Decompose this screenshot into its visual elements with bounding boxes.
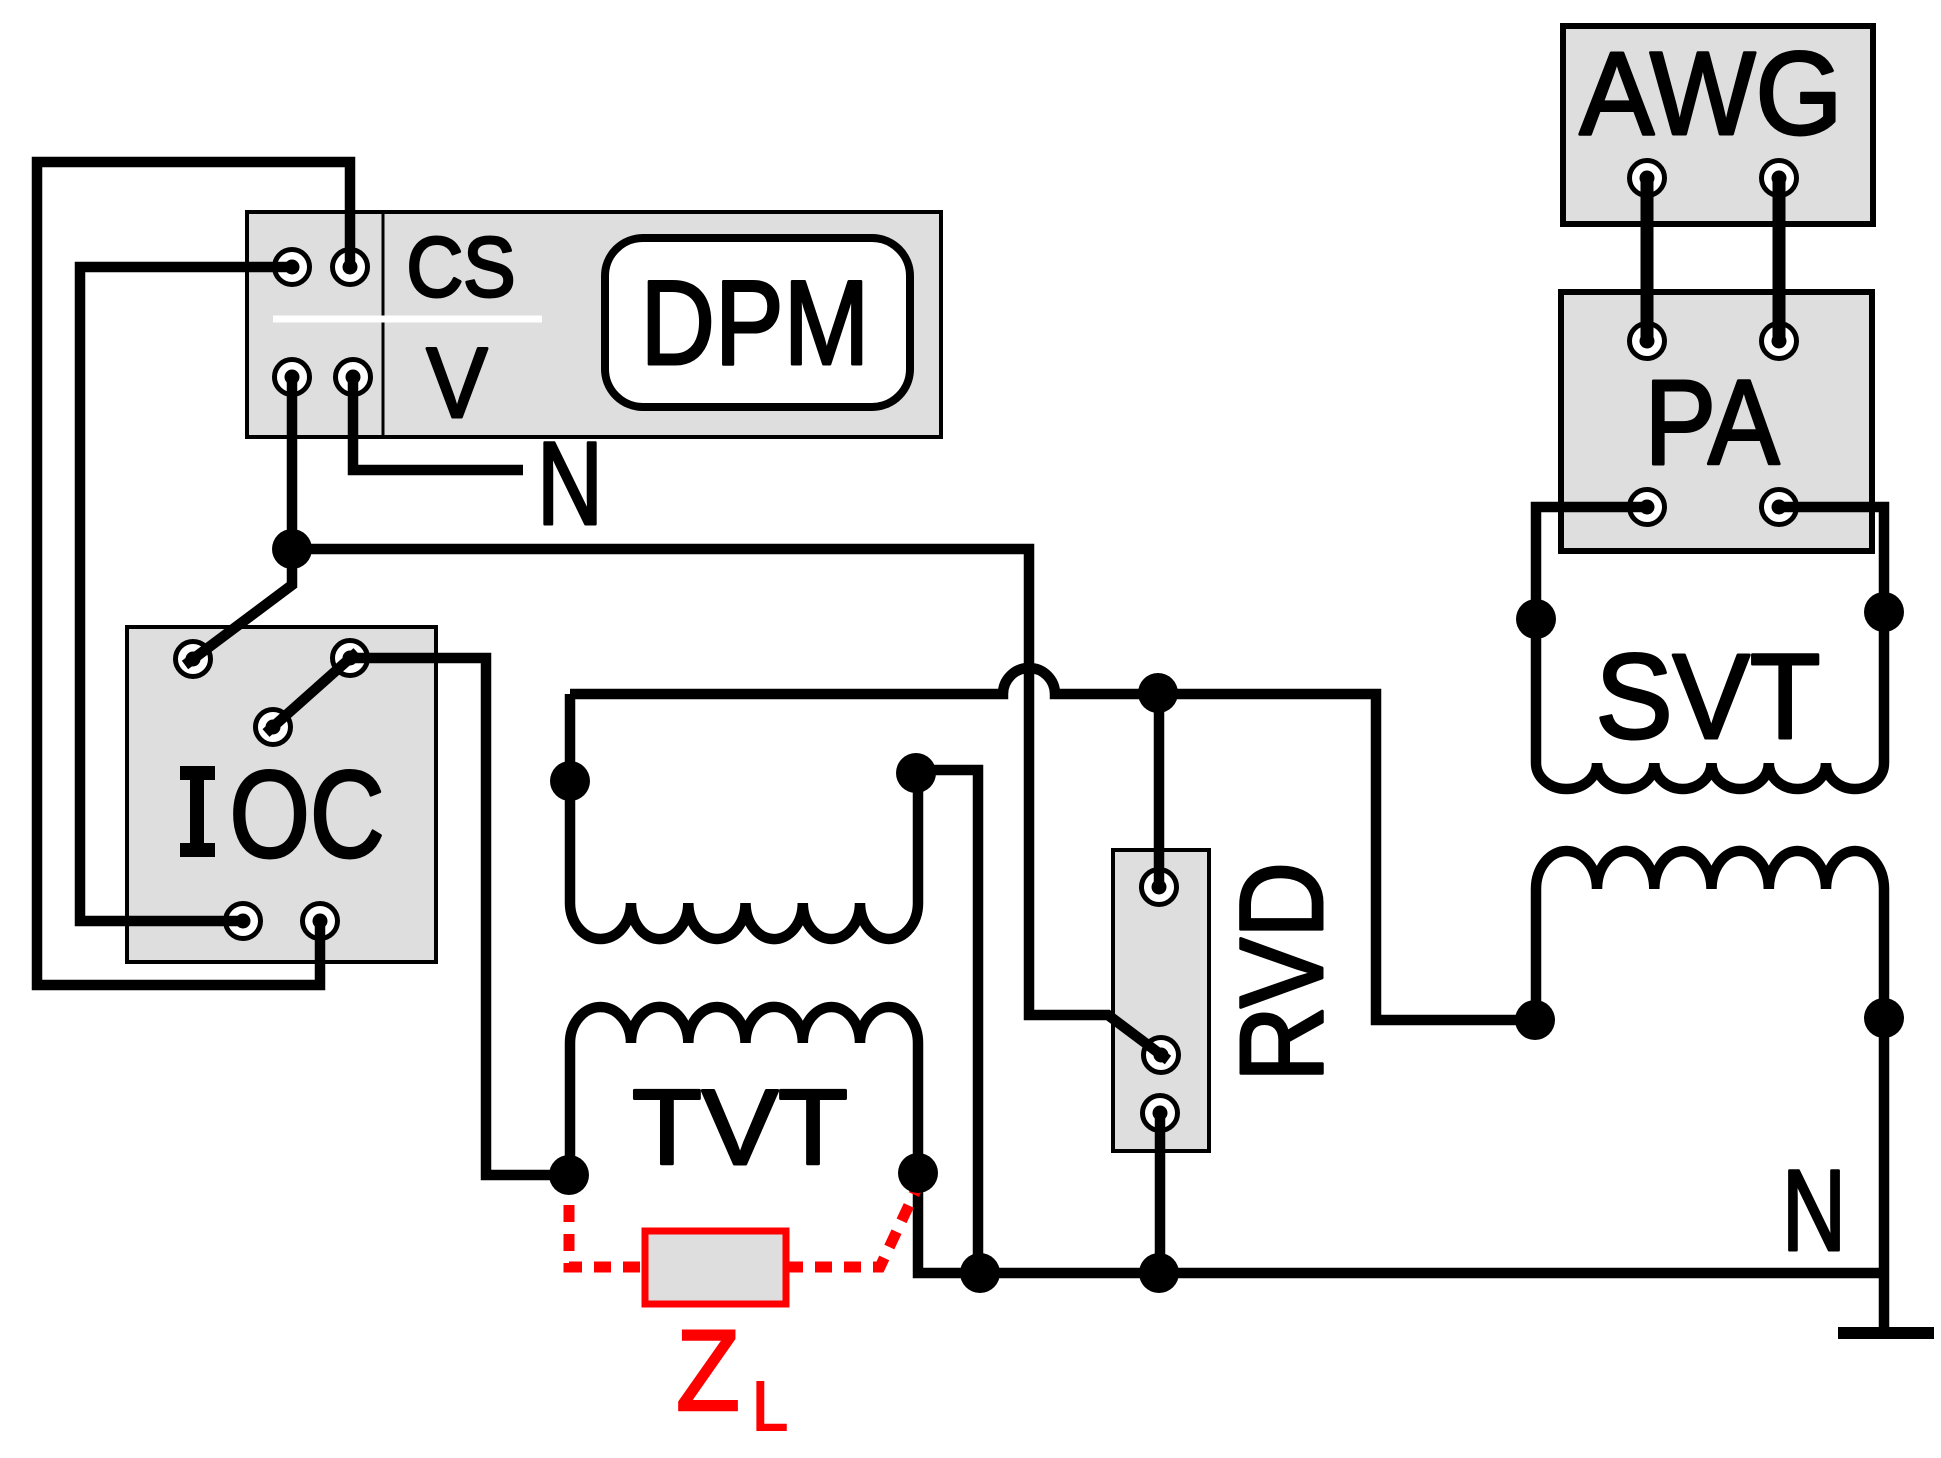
svg-text:DPM: DPM [641, 256, 870, 390]
svg-text:TVT: TVT [632, 1067, 848, 1187]
svg-text:SVT: SVT [1596, 628, 1821, 764]
svg-text:AWG: AWG [1580, 28, 1843, 160]
svg-text:CS: CS [407, 220, 516, 314]
svg-text:Z: Z [676, 1307, 740, 1435]
svg-text:N: N [537, 418, 603, 550]
svg-text:N: N [1782, 1147, 1846, 1275]
svg-text:V: V [427, 327, 488, 438]
svg-text:PA: PA [1645, 354, 1780, 490]
svg-text:RVD: RVD [1216, 862, 1348, 1082]
svg-text:OC: OC [230, 747, 385, 884]
svg-text:L: L [752, 1367, 788, 1445]
